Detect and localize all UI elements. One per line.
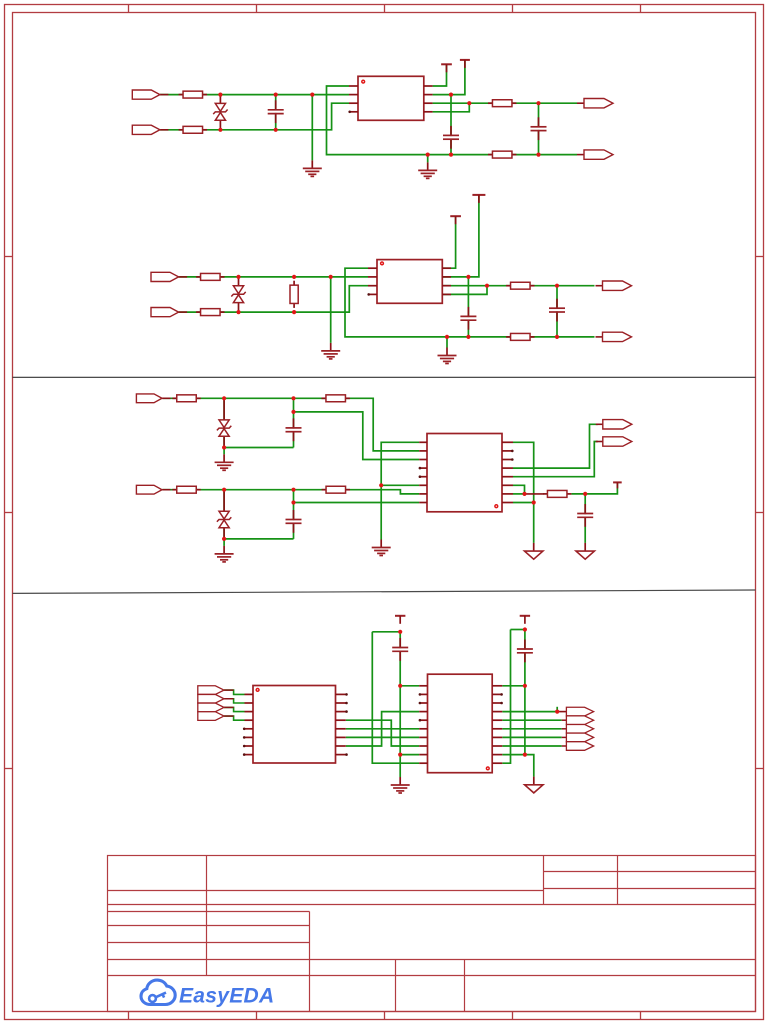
connector P7 bbox=[596, 281, 632, 290]
resistor R7 bbox=[290, 281, 298, 308]
U2 pin 6 bbox=[442, 276, 451, 278]
connector P13 bbox=[198, 686, 245, 695]
wire to U5 pin9 bbox=[400, 754, 419, 756]
wire U1 pin8 join bbox=[433, 103, 470, 112]
U3 pin 9 bbox=[502, 502, 513, 504]
wire C6 tap to U3 pin3 bbox=[294, 412, 420, 460]
wire U2 pin7 to OUT3 bbox=[442, 285, 594, 287]
U4 pin 9 (NC) bbox=[336, 753, 348, 756]
capacitor C5 bbox=[549, 299, 565, 322]
wire to U5 pin20 bbox=[502, 685, 525, 687]
U5 pin 2 (NC) bbox=[419, 693, 428, 696]
capacitor C10 bbox=[517, 640, 533, 663]
junction s4-6 bbox=[523, 753, 527, 757]
U1 pin 8 bbox=[424, 111, 433, 113]
junction s2-4 bbox=[236, 310, 240, 314]
connector P19 bbox=[562, 724, 594, 733]
junction s4-2 bbox=[398, 684, 402, 688]
junction s3-2 bbox=[291, 396, 295, 400]
resistor R4 bbox=[488, 151, 516, 158]
U1 pin 3 bbox=[349, 102, 358, 104]
wire U5 pin15 to OUT11 bbox=[502, 745, 561, 747]
U5 pin 19 (NC) bbox=[492, 693, 503, 696]
junction s1-3 bbox=[310, 93, 314, 97]
U2 pin 4 (NC) bbox=[367, 293, 377, 296]
wire VCCB branch bbox=[511, 629, 525, 631]
wire U1 pin5 to VCC1 bbox=[433, 64, 447, 86]
power flag VCC7 bbox=[520, 616, 530, 624]
section divider 1 bbox=[13, 376, 756, 378]
U4 pin 12 bbox=[336, 728, 346, 730]
junction s2-10 bbox=[466, 335, 470, 339]
junction s1-9 bbox=[426, 153, 430, 157]
connector P12 bbox=[596, 437, 632, 446]
wire U3 pin12 to OUT5 bbox=[513, 424, 598, 468]
junction s3-3 bbox=[291, 410, 295, 414]
U5 pin 14 bbox=[492, 736, 502, 738]
power flag VCC5 bbox=[613, 482, 622, 488]
capacitor C6 bbox=[286, 418, 302, 441]
junction s2-11 bbox=[555, 335, 559, 339]
U4 pin 6 (NC) bbox=[243, 736, 253, 739]
junction s3-12 bbox=[583, 492, 587, 496]
U3 pin 8 bbox=[419, 502, 427, 504]
U3 pin 16 bbox=[502, 441, 513, 443]
U5 pin 9 bbox=[419, 754, 427, 756]
wire U4 pin11 cross bbox=[346, 712, 419, 746]
U3 pin 13 bbox=[502, 467, 513, 469]
junction s3-1 bbox=[222, 396, 226, 400]
wire C10 leg bbox=[524, 630, 526, 755]
wire U1 pin6 to VCC2 bbox=[433, 60, 465, 95]
wire IN6 main bbox=[163, 490, 420, 494]
wire node B to C2 bbox=[450, 95, 452, 155]
connector P18 bbox=[562, 716, 594, 725]
junction s2-1 bbox=[236, 275, 240, 279]
title block horizontal lines bbox=[108, 872, 756, 976]
power flag VCC6 bbox=[395, 616, 405, 624]
junction s3-6 bbox=[291, 488, 295, 492]
connector P6 bbox=[151, 308, 187, 317]
U3 pin 15 (NC) bbox=[502, 450, 514, 453]
frame ticks right bbox=[756, 257, 764, 769]
resistor R9 bbox=[506, 333, 534, 340]
wire IN4 to U2 pin3 bbox=[179, 286, 368, 312]
capacitor C1 bbox=[268, 100, 284, 123]
wire long leg to U5 pin10 bbox=[372, 632, 419, 763]
U4 pin 5 (NC) bbox=[243, 728, 253, 731]
ground GND9 bbox=[576, 543, 594, 559]
junction s4-5 bbox=[523, 684, 527, 688]
wire to GND5 bbox=[223, 448, 225, 455]
connector P3 bbox=[577, 99, 613, 108]
junction s2-5 bbox=[292, 310, 296, 314]
U5 pin 1 bbox=[419, 685, 427, 687]
U3 pin 12 bbox=[502, 476, 513, 478]
junction s2-6 bbox=[466, 275, 470, 279]
wire U1 pin7 to OUT1 bbox=[433, 102, 577, 104]
capacitor C2 bbox=[443, 126, 459, 149]
wire D3 leg bbox=[223, 398, 225, 447]
junction s1-11 bbox=[536, 153, 540, 157]
wire IN5 main bbox=[163, 398, 420, 451]
U5 pin 6 bbox=[419, 728, 427, 730]
wire U5 pin12 to GND11 bbox=[502, 755, 534, 777]
ground GND1 bbox=[303, 160, 322, 176]
connector P11 bbox=[596, 420, 632, 429]
wire U3 pin13 to OUT6 bbox=[513, 442, 598, 477]
junction s2-2 bbox=[292, 275, 296, 279]
resistor R1 bbox=[179, 91, 207, 98]
wire C1 leg bbox=[275, 95, 277, 130]
U3 pin 4 (NC) bbox=[419, 467, 427, 470]
U4 pin 16 (NC) bbox=[336, 693, 348, 696]
junction s2-9 bbox=[445, 335, 449, 339]
connector P14 bbox=[198, 694, 245, 703]
U5 pin 13 bbox=[492, 745, 502, 747]
U3 pin 3 bbox=[419, 459, 427, 461]
junction s1-7 bbox=[449, 153, 453, 157]
wire D4 leg bbox=[223, 490, 225, 539]
diode D2 bbox=[231, 277, 245, 312]
U4 pin 1 bbox=[245, 693, 254, 695]
resistor R13 bbox=[322, 486, 350, 493]
U1 pin 4 (NC) bbox=[348, 111, 358, 114]
wire U2 pin8 join bbox=[442, 286, 487, 295]
wire to U5 pin1 bbox=[400, 685, 419, 687]
U5 pin 8 bbox=[419, 745, 427, 747]
connector P16 bbox=[198, 712, 245, 721]
connector P2 bbox=[132, 125, 168, 134]
resistor R6 bbox=[196, 309, 224, 316]
wire IN1 to U1 pin2 bbox=[160, 94, 349, 96]
U3 pin 1 bbox=[419, 441, 427, 443]
junction s1-6 bbox=[449, 93, 453, 97]
wire gnd leg to U3 pin6 bbox=[381, 484, 419, 486]
wire C5 leg bbox=[556, 286, 558, 337]
title block vertical lines bbox=[207, 856, 618, 1012]
U4 pin 14 (NC) bbox=[336, 710, 348, 713]
ground GND7 bbox=[372, 540, 391, 556]
wire IN2 to U1 pin3 bbox=[160, 103, 349, 130]
U5 pin 20 bbox=[492, 685, 502, 687]
wire D4 to C7 bottom bbox=[224, 538, 293, 540]
U5 pin 16 bbox=[492, 719, 502, 721]
connector P20 bbox=[562, 733, 594, 742]
wire U3 pin14 join bbox=[513, 485, 525, 494]
power flag VCC3 bbox=[450, 216, 461, 224]
ground GND3 bbox=[321, 343, 340, 359]
resistor R12 bbox=[322, 395, 350, 402]
wire node C to GND3 bbox=[330, 277, 332, 343]
U4 pin 13 bbox=[336, 719, 346, 721]
junction s1-2 bbox=[274, 93, 278, 97]
resistor R11 bbox=[172, 486, 200, 493]
U4 pin 10 bbox=[336, 745, 346, 747]
U5 pin 12 bbox=[492, 754, 502, 756]
wire stub above OUT7 bbox=[556, 707, 558, 712]
junction s1-1 bbox=[218, 93, 222, 97]
ground GND2 bbox=[418, 162, 437, 178]
U4 pin 11 bbox=[336, 736, 346, 738]
wire U1 pin1 to ground rail bbox=[327, 86, 578, 155]
U1 pin 7 bbox=[424, 102, 433, 104]
U5 pin 18 (NC) bbox=[492, 702, 503, 705]
wire U5 pin16 to OUT10 bbox=[502, 736, 561, 738]
connector P10 bbox=[136, 485, 170, 494]
ground GND4 bbox=[438, 348, 457, 364]
junction s3-5 bbox=[222, 488, 226, 492]
ground GND8 bbox=[525, 543, 543, 559]
wire U4 pin9 straight bbox=[346, 728, 419, 730]
wire C6 leg bbox=[293, 398, 295, 447]
connector P4 bbox=[577, 150, 613, 159]
wire C4 leg bbox=[467, 277, 469, 337]
frame ticks bottom bbox=[129, 1012, 641, 1020]
U1 pin 6 bbox=[424, 94, 433, 96]
lead R14 left bbox=[525, 493, 544, 495]
title block outline bbox=[108, 856, 756, 1012]
connector P9 bbox=[136, 394, 170, 403]
junction s2-3 bbox=[329, 275, 333, 279]
mcu U4 bbox=[253, 686, 336, 764]
U2 pin 2 bbox=[368, 276, 377, 278]
connector P1 bbox=[132, 90, 168, 99]
wire to GND6 bbox=[223, 539, 225, 546]
capacitor C7 bbox=[286, 510, 302, 533]
junction s4-7 bbox=[555, 710, 559, 714]
U2 pin 8 bbox=[442, 293, 451, 295]
wire U2 pin6 to VCC4 bbox=[442, 195, 479, 277]
resistor R14 bbox=[543, 490, 571, 497]
regulator U2 bbox=[377, 260, 442, 304]
section divider 2 bbox=[13, 590, 756, 593]
wire U2 pin1 to ground rail bbox=[345, 268, 595, 337]
junction s1-5 bbox=[274, 128, 278, 132]
diode D4 bbox=[217, 490, 231, 539]
connector P17 bbox=[566, 707, 593, 716]
junction s3-10 bbox=[532, 500, 536, 504]
wire C3 leg bbox=[538, 103, 540, 154]
junction s4-1 bbox=[398, 630, 402, 634]
wire U5 pin18 to OUT8 bbox=[502, 719, 561, 721]
diode D3 bbox=[217, 398, 231, 447]
wire VCCA branch bbox=[372, 631, 400, 633]
junction s3-8 bbox=[222, 537, 226, 541]
U4 pin 15 (NC) bbox=[336, 702, 348, 705]
frame ticks left bbox=[4, 257, 13, 769]
wire U4 pin8 cross bbox=[346, 720, 419, 746]
svg-text:EasyEDA: EasyEDA bbox=[179, 985, 274, 1008]
U5 pin 3 (NC) bbox=[419, 702, 428, 705]
wire node A to GND1 bbox=[311, 95, 313, 161]
U4 pin 2 bbox=[245, 702, 254, 704]
resistor R3 bbox=[488, 100, 516, 107]
ground GND5 bbox=[215, 454, 234, 470]
wire U5 pin19 to OUT7 bbox=[502, 711, 557, 713]
capacitor C3 bbox=[531, 117, 547, 140]
connector P21 bbox=[562, 742, 594, 751]
U2 pin 1 bbox=[368, 267, 377, 269]
wire IN3 to U2 pin2 bbox=[179, 276, 368, 278]
wire U4 pin10 straight bbox=[346, 736, 419, 738]
U3 pin 7 bbox=[419, 493, 427, 495]
wire U5 pin17 to OUT9 bbox=[502, 728, 561, 730]
junction s1-4 bbox=[218, 128, 222, 132]
wire C7 leg bbox=[293, 490, 295, 539]
wire C7 tap to U3 pin8 bbox=[294, 502, 420, 504]
wire D3 to C6 bottom bbox=[224, 447, 293, 449]
U5 pin 5 (NC) bbox=[419, 719, 428, 722]
wire U3 pin15 to R14 bbox=[513, 493, 525, 495]
U5 pin 10 bbox=[419, 762, 427, 764]
U5 pin 4 bbox=[419, 711, 427, 713]
frame ticks top bbox=[129, 4, 641, 13]
resistor R5 bbox=[196, 273, 224, 280]
regulator U1 bbox=[358, 76, 424, 120]
junction s4-3 bbox=[398, 753, 402, 757]
U3 pin 14 (NC) bbox=[502, 458, 514, 461]
junction s1-8 bbox=[467, 101, 471, 105]
wire U3 pin16 leg bbox=[513, 502, 534, 504]
U5 pin 7 bbox=[419, 736, 427, 738]
transceiver U3 bbox=[427, 434, 502, 512]
connector P15 bbox=[198, 703, 245, 712]
U5 pin 17 bbox=[492, 711, 502, 713]
connector P8 bbox=[596, 332, 632, 341]
resistor R2 bbox=[179, 126, 207, 133]
junction s3-7 bbox=[291, 500, 295, 504]
ground GND6 bbox=[215, 546, 234, 562]
diode D1 bbox=[213, 95, 227, 130]
wire U3 pin1 gnd leg bbox=[381, 442, 419, 539]
U2 pin 3 bbox=[368, 285, 377, 287]
wire C8 leg bbox=[584, 494, 586, 543]
wire U3 pin9 leg bbox=[513, 442, 534, 502]
power flag VCC4 bbox=[472, 195, 485, 203]
U5 pin 11 bbox=[492, 762, 502, 764]
wire R14 to VCC5 bbox=[571, 482, 617, 494]
U1 pin 2 bbox=[349, 94, 358, 96]
U1 pin 5 bbox=[424, 85, 433, 87]
resistor R8 bbox=[506, 282, 534, 289]
U2 pin 5 bbox=[442, 267, 451, 269]
junction s1-10 bbox=[536, 101, 540, 105]
ground GND10 bbox=[391, 777, 410, 793]
U3 pin 5 (NC) bbox=[419, 475, 427, 478]
junction s2-7 bbox=[485, 284, 489, 288]
junction s3-9 bbox=[379, 483, 383, 487]
U4 pin 7 (NC) bbox=[243, 745, 253, 748]
resistor R10 bbox=[172, 395, 200, 402]
driver U5 bbox=[428, 674, 493, 773]
U4 pin 3 bbox=[245, 711, 254, 713]
U3 pin 10 bbox=[502, 493, 513, 495]
capacitor C8 bbox=[577, 504, 593, 527]
U3 pin 2 bbox=[419, 450, 427, 452]
ground GND11 bbox=[525, 777, 543, 793]
wire U2 pin5 to VCC3 bbox=[442, 216, 455, 268]
U5 pin 15 bbox=[492, 728, 502, 730]
EasyEDA logo cloud bbox=[141, 980, 175, 1004]
U4 pin 4 bbox=[245, 719, 254, 721]
junction s3-4 bbox=[222, 445, 226, 449]
connector P5 bbox=[151, 272, 187, 281]
wire leg to U5 pin11 bbox=[502, 630, 510, 764]
U3 pin 11 bbox=[502, 484, 513, 486]
wire rail to GND4 bbox=[446, 337, 448, 348]
power flag VCC2 bbox=[460, 60, 470, 68]
junction s3-11 bbox=[522, 492, 526, 496]
U4 pin 8 (NC) bbox=[243, 753, 253, 756]
power flag VCC1 bbox=[441, 64, 452, 72]
capacitor C4 bbox=[460, 307, 476, 330]
U2 pin 7 bbox=[442, 285, 451, 287]
wire rail to GND2 bbox=[427, 155, 429, 163]
junction s4-4 bbox=[523, 627, 527, 631]
U3 pin 6 bbox=[419, 484, 427, 486]
wire C9 leg bbox=[399, 632, 401, 777]
capacitor C9 bbox=[392, 638, 408, 661]
lead OUT7 bbox=[557, 711, 566, 713]
wire to GND8 bbox=[533, 503, 535, 543]
U1 pin 1 bbox=[349, 85, 358, 87]
junction s2-8 bbox=[555, 284, 559, 288]
